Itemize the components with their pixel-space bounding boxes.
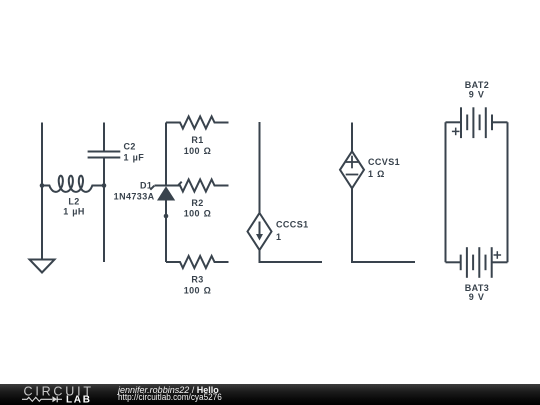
svg-text:1 µF: 1 µF bbox=[124, 153, 145, 163]
svg-text:R1: R1 bbox=[191, 135, 203, 145]
svg-text:9 V: 9 V bbox=[469, 90, 485, 100]
current source CCCS1 bbox=[248, 213, 309, 250]
footer url text bbox=[118, 393, 222, 402]
svg-text:D1: D1 bbox=[140, 181, 152, 191]
diode D1 (zener 1N4733A) bbox=[114, 181, 182, 202]
ground bbox=[30, 260, 55, 273]
voltage source CCVS1 bbox=[340, 151, 400, 188]
svg-text:R2: R2 bbox=[191, 198, 203, 208]
svg-text:LAB: LAB bbox=[66, 394, 92, 405]
wire D1 bottom bbox=[165, 201, 167, 263]
svg-text:CCCS1: CCCS1 bbox=[276, 220, 309, 230]
wire C2 top stub bbox=[103, 123, 105, 151]
resistor R3 bbox=[166, 256, 229, 296]
capacitor C2 bbox=[88, 142, 145, 163]
wire CCVS1 top stub bbox=[351, 123, 353, 152]
svg-text:1 µH: 1 µH bbox=[63, 207, 85, 217]
wire battery loop left bbox=[445, 122, 447, 262]
svg-text:L2: L2 bbox=[68, 197, 79, 207]
wire battery loop right bbox=[507, 122, 509, 262]
battery BAT2 bbox=[446, 80, 508, 138]
wire C2 bottom bbox=[103, 159, 105, 263]
wire D1/R column top bbox=[165, 123, 167, 186]
resistor R2 bbox=[166, 180, 229, 219]
svg-text:100 Ω: 100 Ω bbox=[184, 286, 212, 296]
node C (junction dot below D1) bbox=[164, 214, 169, 219]
svg-text:100 Ω: 100 Ω bbox=[184, 209, 212, 219]
footer bar bbox=[0, 384, 540, 405]
footer title text bbox=[118, 386, 219, 395]
svg-text:1 Ω: 1 Ω bbox=[368, 169, 385, 179]
resistor R1 bbox=[166, 117, 229, 157]
svg-text:C2: C2 bbox=[124, 142, 136, 152]
svg-text:BAT2: BAT2 bbox=[465, 80, 489, 90]
node A (left junction dot) bbox=[40, 183, 45, 188]
svg-text:100 Ω: 100 Ω bbox=[184, 146, 212, 156]
wire CCVS1 bottom bbox=[352, 188, 415, 262]
inductor L2 bbox=[42, 176, 104, 217]
svg-text:1: 1 bbox=[276, 232, 281, 242]
battery BAT3 bbox=[446, 247, 508, 302]
wire CCCS1 bottom bbox=[260, 250, 323, 262]
svg-text:1N4733A: 1N4733A bbox=[114, 192, 155, 202]
CircuitLab logo bbox=[0, 384, 100, 405]
node B (C2 column junction dot) bbox=[102, 183, 107, 188]
svg-text:R3: R3 bbox=[191, 275, 203, 285]
svg-text:9 V: 9 V bbox=[469, 292, 485, 302]
wire CCCS1 top stub bbox=[259, 122, 261, 213]
wire left vertical bbox=[41, 123, 43, 260]
svg-text:CCVS1: CCVS1 bbox=[368, 157, 400, 167]
